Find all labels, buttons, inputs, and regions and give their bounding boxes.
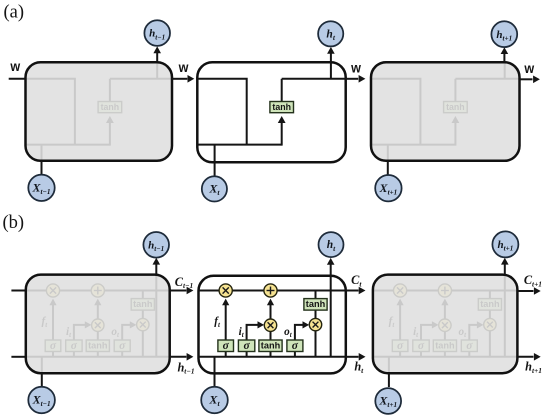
node h_{t-1} (b) bbox=[143, 232, 169, 258]
wire: inner output line to right edge (a,t) bbox=[282, 78, 346, 80]
wire: gate stub (b,t-1) bbox=[73, 352, 75, 357]
wire: gate stub (b,t) bbox=[246, 352, 248, 357]
wire: bottom concat line (a,t+1) bbox=[371, 144, 455, 146]
wire: input rise into tanh (a,t-1) bbox=[109, 123, 111, 146]
wire: x input line (b,t) bbox=[214, 373, 216, 386]
svg-text:w: w bbox=[178, 59, 189, 75]
input sigma gate (b,t) bbox=[238, 340, 254, 352]
svg-text:σ: σ bbox=[223, 340, 230, 352]
node h_{t-1} (a) bbox=[144, 20, 170, 46]
output multiply (b,t-1) bbox=[137, 318, 149, 330]
svg-text:Ct: Ct bbox=[351, 273, 362, 288]
wire: tanh to output multiply (b,t+1) bbox=[489, 309, 491, 319]
svg-text:σ: σ bbox=[397, 340, 404, 352]
wire: forget gate arrow (b,t) bbox=[225, 302, 227, 341]
wire: x input stub t-1 bbox=[41, 161, 43, 175]
svg-text:σ: σ bbox=[119, 340, 126, 352]
wire: candidate arrow (b,t+1) bbox=[444, 331, 446, 340]
state add (b,t-1) bbox=[91, 284, 104, 297]
wire: input x segment inside cell (b,t-1) bbox=[41, 357, 43, 373]
wire: candidate arrow (b,t) bbox=[270, 331, 272, 340]
wire: bottom concat line (a,t) bbox=[197, 144, 281, 146]
output sigma gate (b,t+1) bbox=[461, 340, 477, 352]
wire: input-times-candidate to plus (b,t) bbox=[270, 302, 272, 320]
wire: input x segment inside cell (a,t+1) bbox=[387, 145, 389, 161]
wire: C tap down to tanh (b,t+1) bbox=[489, 291, 491, 300]
node X_t (b) bbox=[201, 387, 228, 414]
input sigma gate (b,t-1) bbox=[66, 340, 82, 352]
output sigma gate (b,t-1) bbox=[114, 340, 130, 352]
wire: output gate path (b,t) bbox=[295, 325, 304, 340]
node X_{t+1} (b) bbox=[375, 388, 401, 414]
LSTM cell t+1 (faded) bbox=[373, 275, 518, 374]
node X_{t-1} (a) bbox=[28, 175, 54, 201]
output multiply (b,t) bbox=[309, 318, 321, 330]
wire: h branch up through cell (b,t) bbox=[330, 276, 332, 357]
wire: hidden output arrow (b,t-1) bbox=[155, 264, 157, 275]
state tanh box (b,t) bbox=[304, 299, 327, 311]
wire: w arrow from cell t-1 to cell t bbox=[172, 78, 187, 80]
wire: output multiply down to h line (b,t-1) bbox=[142, 331, 144, 357]
svg-text:σ: σ bbox=[292, 340, 299, 352]
state add (b,t+1) bbox=[438, 284, 451, 297]
wire: hidden output arrow t bbox=[330, 53, 332, 62]
wire: input x segment inside cell (b,t+1) bbox=[388, 357, 390, 373]
svg-text:tanh: tanh bbox=[446, 102, 465, 112]
svg-text:(a): (a) bbox=[4, 3, 25, 23]
wire: gate stub (b,t-1) bbox=[52, 352, 54, 357]
svg-text:tanh: tanh bbox=[261, 341, 281, 351]
wire: C tap down to tanh (b,t) bbox=[315, 291, 317, 300]
wire: cell-state C line (b,t-1) bbox=[26, 290, 170, 292]
forget multiply (b,t) bbox=[219, 284, 232, 297]
svg-text:w: w bbox=[350, 60, 361, 76]
candidate tanh box (b,t) bbox=[259, 340, 282, 352]
forget sigma gate (b,t) bbox=[218, 340, 234, 352]
wire: x input stub t+1 bbox=[387, 161, 389, 175]
wire: gate stub (b,t+1) bbox=[420, 352, 422, 357]
wire: tanh to output multiply (b,t-1) bbox=[142, 309, 144, 319]
input multiply (b,t+1) bbox=[439, 319, 451, 331]
wire: final w output arrow (a) bbox=[520, 78, 533, 80]
wire: C arrow t to t+1 bbox=[346, 290, 359, 292]
input multiply (b,t) bbox=[264, 319, 276, 331]
wire: hidden output arrow (b,t+1) bbox=[504, 264, 506, 275]
node h_t (b) bbox=[319, 232, 344, 257]
state tanh box (b,t-1) bbox=[131, 299, 154, 311]
wire: recurrent inner line (a,t+1) bbox=[371, 79, 420, 145]
input sigma gate (b,t+1) bbox=[413, 340, 429, 352]
wire: candidate arrow (b,t-1) bbox=[97, 331, 99, 340]
tanh activation box (a,t-1) bbox=[98, 102, 122, 113]
tanh activation box (a,t) bbox=[270, 102, 294, 113]
wire: tanh to output multiply (b,t) bbox=[315, 309, 317, 319]
wire: hidden-state branch up (a,t) bbox=[330, 62, 332, 79]
forget multiply (b,t+1) bbox=[394, 284, 407, 297]
candidate tanh box (b,t-1) bbox=[86, 340, 109, 352]
wire: forget gate arrow (b,t-1) bbox=[52, 302, 54, 341]
svg-text:(b): (b) bbox=[3, 213, 25, 233]
wire: input-times-candidate to plus (b,t-1) bbox=[97, 302, 99, 320]
wire: recurrent inner line (a,t) bbox=[197, 79, 246, 145]
wire: C output arrow (b) bbox=[517, 290, 533, 292]
svg-text:tanh: tanh bbox=[435, 341, 455, 351]
wire: tanh output to cell exit (a,t+1) bbox=[454, 79, 456, 103]
state tanh box (b,t+1) bbox=[478, 299, 501, 311]
svg-text:σ: σ bbox=[243, 340, 250, 352]
wire: h input stub (b) bbox=[11, 356, 25, 358]
svg-text:σ: σ bbox=[466, 340, 473, 352]
faded RNN internals t-1 bbox=[26, 62, 173, 161]
wire: input gate path (b,t) bbox=[247, 325, 259, 340]
wire: h arrow t-1 to t bbox=[170, 356, 187, 358]
wire: output multiply down to h line (b,t) bbox=[315, 331, 317, 357]
wire: input gate path (b,t+1) bbox=[421, 325, 433, 340]
svg-text:σ: σ bbox=[418, 340, 425, 352]
forget multiply (b,t-1) bbox=[46, 284, 59, 297]
svg-text:Ct+1: Ct+1 bbox=[524, 273, 542, 288]
wire: tanh output to cell exit (a,t-1) bbox=[109, 79, 111, 103]
svg-text:tanh: tanh bbox=[272, 102, 291, 112]
node X_t (a) bbox=[202, 176, 227, 201]
wire: x input line t bbox=[214, 162, 216, 176]
wire: input gate path (b,t-1) bbox=[74, 325, 86, 340]
wire: C input stub (b) bbox=[11, 290, 25, 292]
faded RNN internals t+1 bbox=[371, 62, 520, 161]
wire: inner output line to right edge (a,t-1) bbox=[110, 78, 172, 80]
wire: gate stub (b,t-1) bbox=[97, 352, 99, 357]
wire: cell-state C line (b,t+1) bbox=[373, 290, 518, 292]
wire: h branch up through cell (b,t+1) bbox=[504, 275, 506, 357]
wire: output gate path (b,t+1) bbox=[469, 325, 478, 340]
svg-text:w: w bbox=[523, 60, 534, 76]
wire: x input stub (b,t+1) bbox=[388, 373, 390, 387]
wire: gate stub (b,t) bbox=[294, 352, 296, 357]
RNN cell t (active) bbox=[197, 62, 345, 162]
wire: hidden-state h line (b,t) bbox=[199, 356, 346, 358]
wire: hidden output arrow t-1 bbox=[156, 53, 158, 63]
svg-text:σ: σ bbox=[71, 340, 78, 352]
svg-text:tanh: tanh bbox=[88, 341, 108, 351]
wire: gate stub (b,t) bbox=[270, 352, 272, 357]
wire: cell-state C line (b,t) bbox=[199, 290, 346, 292]
svg-text:ht−1: ht−1 bbox=[177, 360, 194, 375]
wire: hidden-state h line (b,t+1) bbox=[373, 356, 518, 358]
wire: hidden-state branch up (a,t-1) bbox=[156, 62, 158, 79]
wire: hidden output arrow t+1 bbox=[503, 54, 505, 63]
wire: gate stub (b,t) bbox=[225, 352, 227, 357]
svg-text:ht+1: ht+1 bbox=[525, 359, 542, 374]
wire: gate stub (b,t+1) bbox=[468, 352, 470, 357]
input multiply (b,t-1) bbox=[92, 319, 104, 331]
node X_{t+1} (a) bbox=[375, 175, 401, 201]
wire: input rise into tanh (a,t) bbox=[281, 123, 283, 146]
wire: input x segment inside cell (b,t) bbox=[214, 357, 216, 374]
wire: h branch up through cell (b,t-1) bbox=[155, 275, 157, 357]
node X_{t-1} (b) bbox=[28, 387, 55, 414]
output multiply (b,t+1) bbox=[484, 318, 496, 330]
wire: hidden-state branch up (a,t+1) bbox=[504, 62, 506, 79]
RNN cell t-1 (faded) bbox=[26, 62, 173, 161]
wire: tanh output to cell exit (a,t) bbox=[281, 79, 283, 103]
wire: hidden output arrow (b,t) bbox=[330, 264, 332, 276]
faded LSTM internals t-1 bbox=[26, 275, 170, 374]
svg-text:σ: σ bbox=[50, 340, 57, 352]
node h_{t+1} (b) bbox=[492, 231, 518, 257]
wire: w output arrow of cell t bbox=[346, 78, 359, 80]
wire: output gate path (b,t-1) bbox=[122, 325, 131, 340]
wire: input line into RNN cell t-1 bbox=[9, 78, 26, 80]
wire: gate stub (b,t+1) bbox=[444, 352, 446, 357]
wire: h output arrow (b) bbox=[517, 356, 533, 358]
wire: forget gate arrow (b,t+1) bbox=[399, 302, 401, 341]
RNN cell t+1 (faded) bbox=[371, 62, 520, 161]
svg-text:w: w bbox=[9, 59, 20, 75]
candidate tanh box (b,t+1) bbox=[433, 340, 456, 352]
svg-text:Ct−1: Ct−1 bbox=[175, 275, 193, 290]
wire: C tap down to tanh (b,t-1) bbox=[142, 291, 144, 300]
forget sigma gate (b,t-1) bbox=[45, 340, 61, 352]
wire: C arrow t-1 to t bbox=[170, 290, 187, 292]
wire: input x segment inside cell (a,t-1) bbox=[41, 145, 43, 161]
wire: h arrow t to t+1 bbox=[346, 356, 359, 358]
svg-text:tanh: tanh bbox=[101, 102, 120, 112]
wire: input rise into tanh (a,t+1) bbox=[454, 123, 456, 146]
output sigma gate (b,t) bbox=[287, 340, 303, 352]
wire: input-times-candidate to plus (b,t+1) bbox=[444, 302, 446, 320]
wire: recurrent inner line (a,t-1) bbox=[26, 79, 75, 145]
wire: x input stub (b,t-1) bbox=[41, 373, 43, 387]
LSTM cell t (active) bbox=[199, 276, 346, 374]
faded LSTM internals t+1 bbox=[373, 275, 518, 374]
wire: hidden-state h line (b,t-1) bbox=[26, 356, 170, 358]
LSTM cell t-1 (faded) bbox=[26, 275, 170, 374]
svg-text:tanh: tanh bbox=[480, 299, 500, 309]
wire: bottom concat line (a,t-1) bbox=[26, 144, 110, 146]
node h_{t+1} (a) bbox=[491, 21, 517, 47]
forget sigma gate (b,t+1) bbox=[392, 340, 408, 352]
state add (b,t) bbox=[264, 284, 277, 297]
wire: gate stub (b,t+1) bbox=[399, 352, 401, 357]
wire: inner output line to right edge (a,t+1) bbox=[455, 78, 519, 80]
svg-text:tanh: tanh bbox=[133, 299, 153, 309]
svg-text:tanh: tanh bbox=[306, 299, 326, 309]
svg-text:ht: ht bbox=[354, 360, 364, 375]
tanh activation box (a,t+1) bbox=[444, 102, 468, 113]
wire: input x segment inside cell (a,t) bbox=[214, 145, 216, 163]
wire: output multiply down to h line (b,t+1) bbox=[489, 331, 491, 357]
wire: gate stub (b,t-1) bbox=[121, 352, 123, 357]
node h_t (a) bbox=[318, 21, 343, 46]
